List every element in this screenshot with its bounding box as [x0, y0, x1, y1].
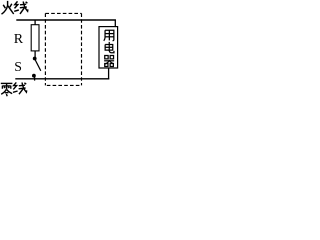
线(2) left radical 纟 [13, 82, 16, 89]
用 [104, 30, 105, 40]
wire: vertical drop to appliance top [114, 20, 116, 27]
线(2) right 戋 [19, 84, 25, 87]
零 bottom 令 [1, 89, 6, 94]
器 [105, 56, 108, 59]
wire: lead from resistor bottom to switch [34, 51, 36, 57]
node label 火线 (live wire) [2, 1, 28, 14]
零 rain radical [1, 82, 13, 84]
switch S blade (open) [35, 60, 41, 71]
dashed boundary box [45, 13, 81, 85]
appliance box 用电器 [99, 27, 118, 68]
wire: live wire top horizontal [16, 19, 116, 21]
switch S lower terminal node [32, 74, 36, 78]
线 left radical 纟 [15, 1, 18, 8]
node label 零线 (neutral wire) [1, 82, 27, 96]
wire: vertical rise from neutral wire to appliance bottom [108, 68, 110, 80]
线 right 戋 [20, 3, 26, 6]
svg-text:S: S [14, 59, 22, 74]
switch S upper terminal node [33, 57, 37, 61]
wire: resistor R top lead [34, 20, 36, 25]
wire: neutral wire bottom horizontal [15, 78, 109, 80]
svg-text:R: R [14, 32, 24, 47]
wire: lead from switch lower terminal to neutral wire [34, 77, 36, 81]
电 [108, 42, 110, 51]
火 [3, 5, 5, 8]
resistor R body [31, 25, 39, 51]
